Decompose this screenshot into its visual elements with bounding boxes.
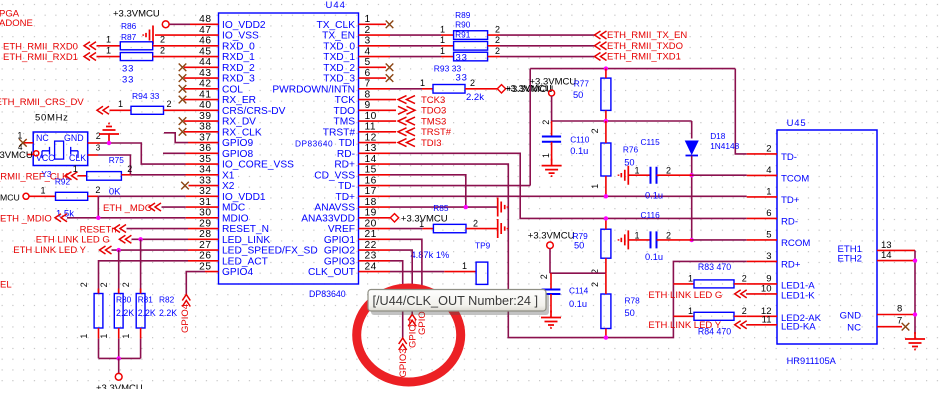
svg-text:33: 33 <box>199 175 211 186</box>
wire R90 to port <box>500 45 595 47</box>
pin 41 stub (RX_ER) <box>184 99 219 101</box>
svg-text:RD+: RD+ <box>334 160 355 171</box>
svg-text:9: 9 <box>365 100 371 111</box>
capacitor C110 plates <box>542 137 561 142</box>
wire LED Y <box>112 249 189 251</box>
wire ETH_RMII_RXD1 to R87.1 <box>97 56 121 58</box>
pin 1 stub (TX_CLK) <box>359 23 387 25</box>
svg-text:IO_VDD2: IO_VDD2 <box>222 20 266 31</box>
diode D18 body <box>686 141 699 154</box>
wire +3.3 circle down <box>549 249 551 274</box>
svg-text:ETH _MDC: ETH _MDC <box>103 203 152 214</box>
R76 top stub <box>605 121 607 143</box>
svg-text:2: 2 <box>160 35 165 45</box>
no-connect X on RX_DV <box>179 117 187 125</box>
pin 22 stub (GPIO2) <box>359 249 391 251</box>
pin 30 stub (MDIO) <box>186 217 219 219</box>
pin 18 stub (ANAVSS) <box>359 206 391 208</box>
resistor R82 body (vertical) <box>136 294 145 329</box>
wire ETH1/ETH2 tie <box>914 250 916 334</box>
svg-text:50: 50 <box>625 308 635 318</box>
pin 5 stub (TXD_2) <box>359 66 387 68</box>
svg-text:R76: R76 <box>623 145 639 155</box>
junction center-tap / R76-R77 <box>604 119 608 123</box>
wire VREF to R85 <box>390 228 423 230</box>
svg-text:IO_VSS: IO_VSS <box>222 31 259 42</box>
pin 9 stub (TDO3) <box>359 109 397 111</box>
svg-text:ANAVSS: ANAVSS <box>314 203 355 214</box>
svg-text:D18: D18 <box>710 131 726 141</box>
junction LED G / R82 pull-up <box>138 237 142 241</box>
svg-text:RD+: RD+ <box>781 259 801 270</box>
svg-text:RX_CLK: RX_CLK <box>222 127 262 138</box>
port arrow ETH_RMII_TX_EN <box>595 31 607 39</box>
svg-text:R93 33: R93 33 <box>434 64 462 74</box>
svg-text:1: 1 <box>420 78 425 88</box>
power port +3.3VMCU circle at Y3 VCC <box>34 151 39 156</box>
svg-text:+3.3VMCU: +3.3VMCU <box>113 9 160 20</box>
wire GPIO3 drop <box>390 261 403 338</box>
svg-text:2: 2 <box>766 144 771 155</box>
power port +3.3VMCU circle at pin 48 <box>162 21 169 28</box>
svg-text:ETH2: ETH2 <box>837 254 862 265</box>
svg-text:COL: COL <box>222 84 243 95</box>
R80 bottom pin stub <box>98 328 100 339</box>
port arrow TCK3 <box>398 96 415 104</box>
no-connect X on X2 <box>181 182 189 190</box>
svg-text:12: 12 <box>365 132 377 143</box>
wire RCOM <box>692 239 747 241</box>
pin 24 stub (CLK_OUT) <box>359 271 391 273</box>
oscillator Y3 body <box>33 132 87 166</box>
capacitor C115 plates <box>651 167 657 184</box>
svg-text:48: 48 <box>199 14 211 25</box>
junction RD- / R79 <box>604 216 608 220</box>
ground below ETH tie <box>905 332 925 350</box>
resistor body (REF_CLK 22R) <box>87 172 122 181</box>
svg-text:RXD_3: RXD_3 <box>222 74 255 85</box>
pin 42 stub (COL) <box>184 88 219 90</box>
pin 12 stub (TDI3) <box>359 142 397 144</box>
U45 pin 4 (TCOM) stub <box>747 174 777 176</box>
pin 2 stub <box>359 34 391 36</box>
svg-text:RESET_N: RESET_N <box>222 224 269 235</box>
pin 48 stub (IO_VDD2) <box>190 23 219 25</box>
wire branch down to MDIO net <box>97 196 99 218</box>
junction LED Y / R81 pull-up <box>117 248 121 252</box>
svg-text:CLK: CLK <box>69 153 86 163</box>
junction rail center <box>117 356 121 360</box>
wire R80 bottom to rail <box>98 339 100 359</box>
svg-text:NC: NC <box>36 133 49 143</box>
svg-text:LED1-K: LED1-K <box>781 291 815 302</box>
svg-text:15: 15 <box>365 165 377 176</box>
junction rail / R77 <box>604 66 608 70</box>
svg-text:1: 1 <box>635 166 640 176</box>
svg-text:RXD_0: RXD_0 <box>222 41 255 52</box>
svg-text:32: 32 <box>199 186 211 197</box>
svg-text:7: 7 <box>897 316 902 327</box>
U45 pin 13 stub (ETH1) <box>877 249 915 251</box>
svg-text:RX_ER: RX_ER <box>222 95 256 106</box>
red highlight circle annotation <box>357 288 461 382</box>
svg-text:2.2K: 2.2K <box>138 308 156 318</box>
C114 top stub <box>550 273 552 289</box>
svg-text:R81: R81 <box>138 295 154 305</box>
svg-text:2.2K: 2.2K <box>116 308 134 318</box>
svg-text:2.2k: 2.2k <box>466 92 484 103</box>
C110 bottom stub <box>551 142 553 161</box>
svg-text:1: 1 <box>79 334 89 339</box>
wire CRS_DV to R94.1 <box>110 109 132 111</box>
resistor body R92 0K <box>56 192 88 200</box>
svg-text:2.2K: 2.2K <box>159 308 177 318</box>
svg-text:1: 1 <box>41 185 46 195</box>
port arrow GPIO2 (up) <box>408 314 416 326</box>
junction ETH2 <box>913 258 917 262</box>
pin 39 stub (RX_DV) <box>184 120 219 122</box>
svg-text:IO_CORE_VSS: IO_CORE_VSS <box>222 160 294 171</box>
junction Y3 GND <box>107 141 111 145</box>
wire TD- net <box>390 185 530 187</box>
R78 bottom stub <box>605 329 607 338</box>
resistor R80 body (vertical) <box>94 294 103 329</box>
port arrow GPIO1 (up) <box>418 296 426 308</box>
svg-text:46: 46 <box>199 36 211 47</box>
svg-text:ETH LINK LED G: ETH LINK LED G <box>36 235 110 246</box>
R81 bottom pin stub <box>118 328 120 339</box>
svg-text:TCK: TCK <box>335 95 356 106</box>
svg-text:1: 1 <box>541 153 551 158</box>
U44 left pin numbers 48..25 <box>199 14 211 272</box>
Y3 crystal symbol <box>55 141 64 159</box>
pin 6 stub (TXD_3) <box>359 77 387 79</box>
wire CD_VSS to analog ground <box>390 175 466 207</box>
wire pin7 to R93 <box>390 88 422 90</box>
svg-text:3: 3 <box>365 36 371 47</box>
no-connect X on TXD_3 <box>386 74 394 82</box>
U45 pin 7 stub (NC) <box>877 326 902 328</box>
C115 pin 2 wire <box>657 174 692 176</box>
pin 44 stub (RXD_2) <box>184 66 219 68</box>
svg-text:1: 1 <box>121 334 131 339</box>
svg-text:TX_EN: TX_EN <box>322 31 355 42</box>
svg-text:34: 34 <box>199 165 211 176</box>
svg-text:47: 47 <box>199 25 211 36</box>
Y3 pin 2 stub (GND) <box>88 142 100 144</box>
no-connect X on RXD_3 <box>179 74 187 82</box>
svg-text:24: 24 <box>365 261 377 272</box>
svg-text:2: 2 <box>539 274 549 279</box>
U44 pin names (both columns) <box>222 20 355 278</box>
svg-text:+3.3VMCU: +3.3VMCU <box>505 84 552 95</box>
svg-text:U44: U44 <box>326 0 346 11</box>
port arrow ETH LINK LED G (right side) <box>735 290 747 298</box>
C115 pin 1 wire <box>628 174 650 176</box>
svg-text:31: 31 <box>199 197 211 208</box>
svg-text:50: 50 <box>624 158 634 168</box>
svg-text:TRST#: TRST# <box>421 127 452 138</box>
svg-text:16: 16 <box>365 175 377 186</box>
svg-text:1: 1 <box>365 14 371 25</box>
svg-text:1: 1 <box>688 306 693 316</box>
IC U44 DP83640 body <box>219 13 359 284</box>
svg-text:TXD_2: TXD_2 <box>323 63 355 74</box>
svg-text:TDO: TDO <box>333 106 355 117</box>
svg-text:NC: NC <box>847 323 861 334</box>
svg-text:8: 8 <box>897 304 902 315</box>
svg-text:39: 39 <box>199 111 211 122</box>
wire LED1-K <box>745 293 748 295</box>
svg-text:CLK_OUT: CLK_OUT <box>308 267 355 278</box>
svg-text:TX_CLK: TX_CLK <box>316 20 355 31</box>
svg-text:33: 33 <box>456 72 468 83</box>
wire ETH_RMII_RXD0 to R86.1 <box>97 45 121 47</box>
pin 34 stub (X1) <box>186 174 219 176</box>
svg-text:2: 2 <box>127 164 132 174</box>
pin 38 stub (RX_CLK) <box>184 131 219 133</box>
svg-text:HR911105A: HR911105A <box>787 356 837 366</box>
svg-text:R92: R92 <box>55 176 71 186</box>
svg-text:2: 2 <box>666 166 671 176</box>
wire ANAVSS to ground <box>390 206 498 208</box>
svg-text:23: 23 <box>365 251 377 262</box>
ground below C110 <box>542 159 562 177</box>
svg-text:RD-: RD- <box>337 149 355 160</box>
wire rail to +3.3VMCU circle <box>118 358 120 373</box>
wire R90.2 out <box>488 45 500 47</box>
wire LED G <box>132 238 189 240</box>
junction RD+ rail / R78 <box>604 335 608 339</box>
ground (rotated right) VREF/R85 <box>498 219 508 238</box>
ground (rotated right) ANAVSS <box>498 198 508 217</box>
wire LED-KA <box>745 324 748 326</box>
wire RD+ net <box>390 164 747 338</box>
svg-text:2: 2 <box>495 35 500 45</box>
capacitor C116 plates <box>651 231 657 248</box>
center-tap net (y121) <box>552 120 692 122</box>
resistor R77 body (vertical) <box>601 78 611 110</box>
Y3 crystal plates <box>42 147 78 158</box>
resistor R91 body <box>454 52 488 61</box>
junction D18 / C116 / RCOM <box>690 238 694 242</box>
U45 pin 8 stub (GND) <box>877 314 915 316</box>
no-connect X on TXD_2 <box>386 64 394 72</box>
svg-text:44: 44 <box>199 57 211 68</box>
svg-text:14: 14 <box>881 250 892 261</box>
pin 4 stub <box>359 56 391 58</box>
svg-text:GPIO2: GPIO2 <box>407 319 418 348</box>
svg-text:GPIO4: GPIO4 <box>180 304 191 333</box>
pin 29 stub (RESET_N) <box>188 228 219 230</box>
port arrow GPIO4 (up) <box>182 295 190 307</box>
no-connect X on COL <box>179 85 187 93</box>
svg-text:2: 2 <box>590 128 600 133</box>
wire GPIO9 branch <box>164 133 188 143</box>
svg-text:5: 5 <box>766 230 771 241</box>
svg-text:1: 1 <box>635 230 640 240</box>
IC U45 HR911105A body <box>777 130 877 344</box>
resistor R87 body <box>120 53 152 61</box>
wire MDIO <box>67 217 186 219</box>
C110 top stub <box>551 121 553 136</box>
pin 10 stub (TMS3) <box>359 120 397 122</box>
svg-text:10: 10 <box>761 284 772 295</box>
capacitor C114 plates <box>542 290 561 295</box>
port arrow ETH_RMII_RXD1 <box>84 53 96 61</box>
R76 bottom stub <box>605 176 607 196</box>
svg-text:IO_VDD1: IO_VDD1 <box>222 192 266 203</box>
svg-text:2: 2 <box>541 120 551 125</box>
port arrow GPIO3 (up) <box>399 338 407 350</box>
pin 23 stub (GPIO3) <box>359 260 391 262</box>
svg-text:2: 2 <box>99 282 109 287</box>
inverted ground above Y3 GND <box>99 124 119 144</box>
junction GND tie <box>913 312 917 316</box>
svg-text:3: 3 <box>96 144 101 153</box>
power port +3.3VMCU circle (R77 area) <box>549 90 555 96</box>
wire R94.2 to pin 40 <box>164 109 219 111</box>
svg-text:TDI3: TDI3 <box>421 138 442 149</box>
no-connect X on Y3 pin 1 <box>19 139 27 147</box>
svg-text:R83 470: R83 470 <box>698 262 731 272</box>
svg-text:X1: X1 <box>222 170 235 181</box>
svg-text:VREF: VREF <box>328 224 355 235</box>
pin 21 stub (GPIO1) <box>359 238 391 240</box>
svg-text:RX_DV: RX_DV <box>222 117 256 128</box>
U45 pin 12 (LED2-AK) stub <box>747 315 777 317</box>
svg-text:ETH LINK LED Y: ETH LINK LED Y <box>648 320 721 331</box>
svg-text:50: 50 <box>573 90 583 100</box>
svg-text:GND: GND <box>64 133 84 143</box>
svg-text:+3.3VMCU: +3.3VMCU <box>528 231 575 242</box>
wire R89.2 out <box>488 34 500 36</box>
svg-text:ETH LINK LED G: ETH LINK LED G <box>648 290 722 301</box>
svg-text:GPIO1: GPIO1 <box>324 235 355 246</box>
wire 0K to pin 32 <box>88 195 99 197</box>
R81 top pin stub <box>118 289 120 294</box>
wire into TP9 <box>444 271 476 273</box>
svg-text:28: 28 <box>199 229 211 240</box>
svg-text:1: 1 <box>440 35 445 45</box>
R78 top stub <box>605 273 607 294</box>
svg-text:41: 41 <box>199 89 211 100</box>
svg-text:GPIO2: GPIO2 <box>324 246 355 257</box>
wire X1 node to pin 34 <box>130 174 185 176</box>
wire GPIO2 drop <box>390 250 412 314</box>
U45 pin 1 (TD+) stub <box>747 196 777 198</box>
svg-text:TCOM: TCOM <box>781 173 809 184</box>
svg-text:GPIO3: GPIO3 <box>398 348 409 377</box>
svg-text:17: 17 <box>365 186 377 197</box>
svg-text:27: 27 <box>199 240 211 251</box>
svg-text:R77: R77 <box>574 78 590 88</box>
svg-text:ETH_RMII_RXD1: ETH_RMII_RXD1 <box>3 52 78 63</box>
wire R81 bottom to rail <box>118 339 120 359</box>
svg-text:GPIO4: GPIO4 <box>222 267 253 278</box>
svg-text:ETH_RMII_RXD0: ETH_RMII_RXD0 <box>3 41 78 52</box>
U45 pin 10 (LED1-K) stub <box>747 293 777 295</box>
svg-text:21: 21 <box>365 229 377 240</box>
svg-text:ANA33VDD: ANA33VDD <box>301 213 355 224</box>
wire pin to R89 <box>390 34 441 36</box>
svg-text:2: 2 <box>470 78 475 88</box>
svg-text:+3.3VMCU: +3.3VMCU <box>0 150 33 161</box>
no-connect X on RX_ER <box>179 96 187 104</box>
svg-text:40: 40 <box>199 100 211 111</box>
svg-text:LED_ACT: LED_ACT <box>222 256 268 267</box>
svg-text:C110: C110 <box>570 134 590 144</box>
svg-text:RD-: RD- <box>781 216 798 227</box>
C116 pin 2 wire <box>657 239 692 241</box>
svg-text:6: 6 <box>365 68 371 79</box>
port arrow ETH_MDC <box>149 203 161 211</box>
svg-text:1N4148: 1N4148 <box>710 141 739 151</box>
wire GPIO1 drop <box>390 239 422 296</box>
pin 35 stub (IO_CORE_VSS) <box>186 163 219 165</box>
pin 31 stub (MDC) <box>186 206 219 208</box>
svg-text:RCOM: RCOM <box>781 238 810 249</box>
svg-text:1: 1 <box>766 187 771 198</box>
port arrow ETH_RMII_TXDO <box>595 42 607 50</box>
svg-text:[/U44/CLK_OUT Number:24 ]: [/U44/CLK_OUT Number:24 ] <box>373 294 538 308</box>
svg-text:R79: R79 <box>573 231 589 241</box>
wire D18 cathode down <box>691 156 693 240</box>
port arrow ETH LINK LED Y (right side) <box>735 321 747 329</box>
svg-text:35: 35 <box>199 154 211 165</box>
pin 25 stub (GPIO4) <box>205 271 219 273</box>
svg-text:LED-KA: LED-KA <box>781 321 816 332</box>
wire center-tap to D18 <box>691 121 693 139</box>
svg-text:0.1u: 0.1u <box>569 299 587 309</box>
svg-text:38: 38 <box>199 122 211 133</box>
svg-text:MDC: MDC <box>222 203 245 214</box>
svg-text:36: 36 <box>199 143 211 154</box>
port arrow MII_REF_CLK <box>66 172 78 180</box>
svg-text:RXD_2: RXD_2 <box>222 63 255 74</box>
wire RESETn <box>127 228 189 230</box>
wire RD- net <box>390 153 747 218</box>
svg-text:2: 2 <box>590 282 600 287</box>
pin 26 stub (LED_ACT) <box>188 260 219 262</box>
wire R91.2 out <box>488 56 500 58</box>
svg-text:U45: U45 <box>787 118 807 129</box>
svg-text:TD+: TD+ <box>335 192 355 203</box>
svg-text:R86: R86 <box>121 21 137 31</box>
power port +3.3VMCU circle (bottom) <box>115 373 122 380</box>
svg-text:GND: GND <box>840 311 861 322</box>
svg-text:TP9: TP9 <box>475 241 491 251</box>
pin 17 stub (TD+) <box>359 195 391 197</box>
svg-text:43: 43 <box>199 68 211 79</box>
svg-text:1: 1 <box>99 334 109 339</box>
svg-text:TMS3: TMS3 <box>421 116 446 127</box>
svg-text:42: 42 <box>199 79 211 90</box>
svg-text:DP83640: DP83640 <box>309 289 346 299</box>
wire port to REF_CLK resistor <box>78 175 87 177</box>
svg-text:ETH_RMII_CRS_DV: ETH_RMII_CRS_DV <box>0 97 84 108</box>
resistor R86 body <box>120 42 152 50</box>
svg-text:R80: R80 <box>116 295 132 305</box>
resistor R84 body <box>694 312 734 320</box>
svg-text:5: 5 <box>365 57 371 68</box>
wire R81 pull-up drop <box>118 250 120 293</box>
svg-text:TRST#: TRST# <box>323 127 356 138</box>
svg-text:TDO3: TDO3 <box>421 106 446 117</box>
wire rail down to U45 TD- <box>735 69 746 154</box>
svg-text:CRS/CRS-DV: CRS/CRS-DV <box>222 106 286 117</box>
svg-text:TD-: TD- <box>781 152 797 163</box>
